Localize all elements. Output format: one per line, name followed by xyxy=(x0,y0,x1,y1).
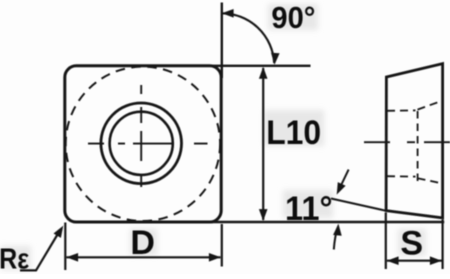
11 deg lower leader xyxy=(334,229,338,250)
horizontal centerline xyxy=(88,143,208,145)
side view hidden hole: top-right slanted dashed xyxy=(418,101,443,110)
Re corner-radius leader xyxy=(36,235,58,271)
svg-text:D: D xyxy=(130,224,155,262)
side view hidden hole: middle vertical dashed xyxy=(417,111,419,181)
svg-text:90°: 90° xyxy=(271,0,315,35)
L10 dimension line xyxy=(262,68,264,220)
bottom edge extension line xyxy=(208,221,444,224)
L10 arrow up xyxy=(259,67,268,79)
svg-text:11°: 11° xyxy=(285,190,333,228)
top edge extension line xyxy=(212,65,311,67)
S dimension line xyxy=(387,260,442,262)
hole outer circle xyxy=(101,103,182,184)
arc arrowhead bottom xyxy=(271,53,280,65)
side view hidden hole: top-left dashed xyxy=(387,109,416,111)
D dimension line xyxy=(67,256,221,258)
side view hidden hole: bottom-right slanted dashed xyxy=(418,178,443,183)
S extension line right xyxy=(442,220,444,270)
hole inner circle xyxy=(110,112,173,175)
L10 arrow down xyxy=(259,209,268,221)
D extension line left xyxy=(64,223,66,271)
svg-text:S: S xyxy=(400,225,423,263)
11 deg upper leader xyxy=(339,170,349,190)
svg-text:L10: L10 xyxy=(266,114,321,152)
svg-text:Rε: Rε xyxy=(0,243,29,274)
D extension line right xyxy=(221,224,223,267)
vertical centerline xyxy=(140,85,142,196)
11 deg reference slanted line (extension of side-view bottom face) xyxy=(331,199,386,211)
side view horizontal centerline xyxy=(364,141,450,143)
Re leader foot underline xyxy=(20,269,37,271)
S extension line left xyxy=(385,213,387,270)
inscribed circle (dashed) xyxy=(66,67,220,221)
arc arrowhead left xyxy=(222,9,234,18)
side view hidden hole: bottom-left dashed xyxy=(387,175,416,177)
insert front view outline xyxy=(65,66,221,222)
90 degree dimension arc xyxy=(222,13,274,63)
insert side view outline xyxy=(386,64,443,218)
right edge extension line (up) xyxy=(221,3,223,79)
